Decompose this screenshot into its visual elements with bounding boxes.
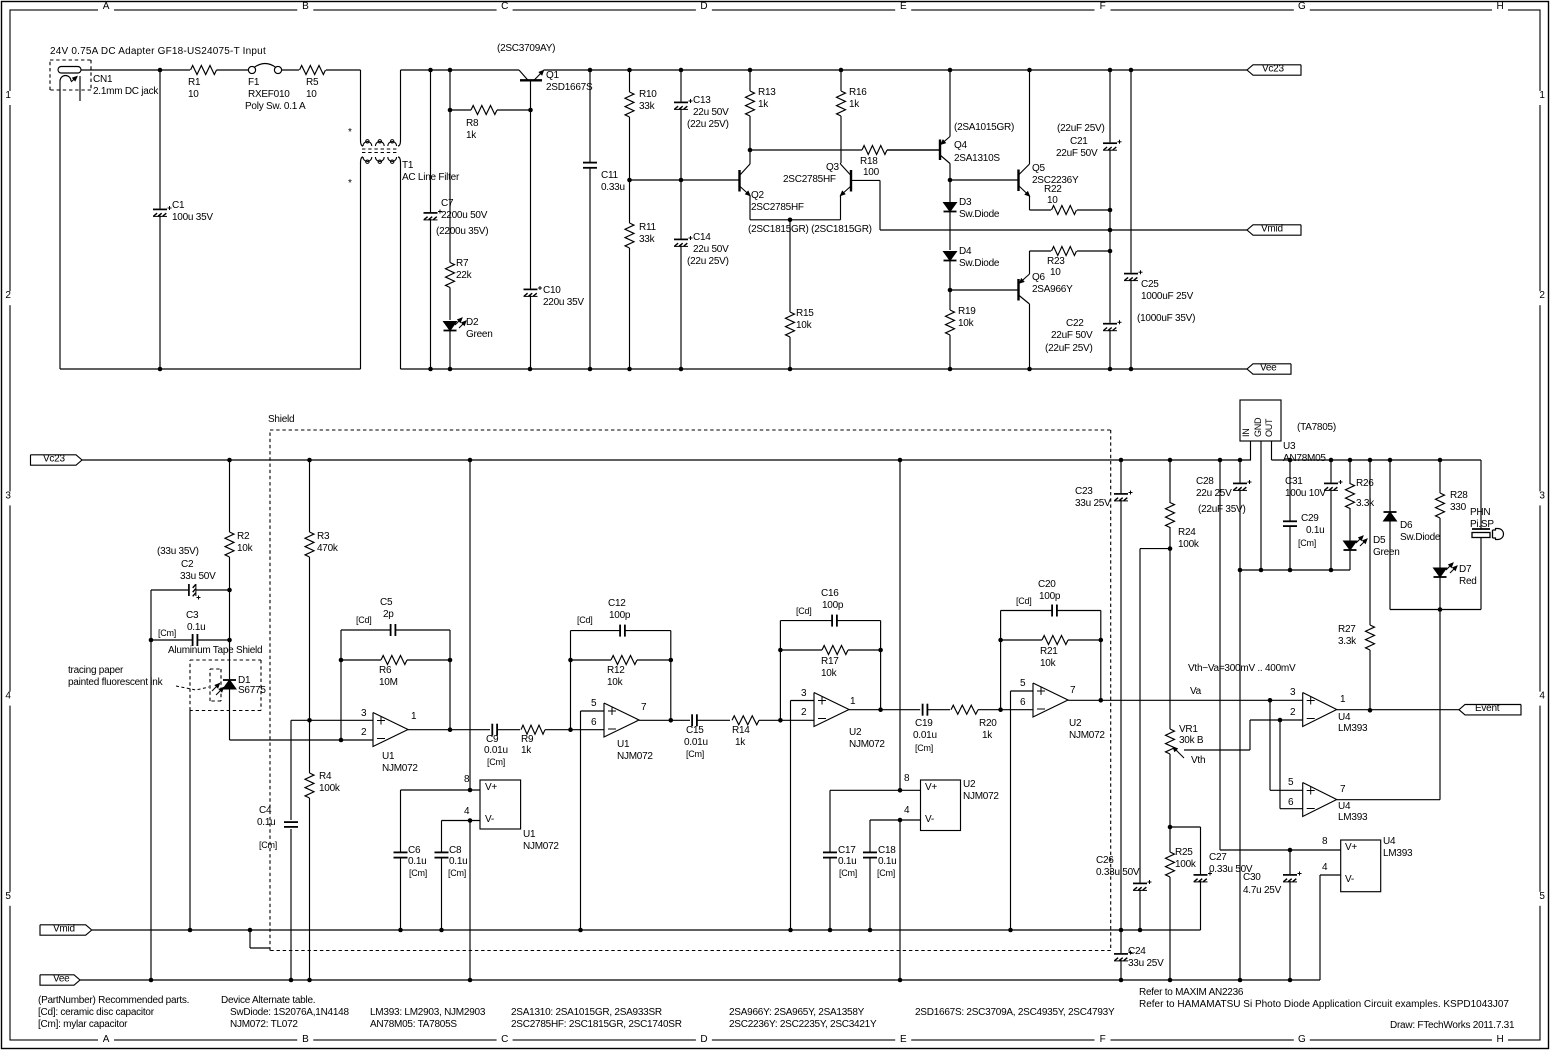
capacitor C28 22u 25V bbox=[1196, 460, 1252, 570]
svg-text:1k: 1k bbox=[735, 737, 746, 748]
transistor Q1 2SD1667S bbox=[497, 43, 593, 93]
shield dashed box bbox=[268, 414, 1111, 951]
LED D7 Red bbox=[1434, 563, 1477, 610]
junction Vee x=1170 bbox=[1168, 978, 1173, 983]
svg-text:[Cm]: [Cm] bbox=[409, 868, 427, 878]
feedback left U2b bbox=[998, 611, 1052, 710]
svg-text:220u 35V: 220u 35V bbox=[543, 297, 584, 308]
resistor R13 1k bbox=[746, 70, 777, 150]
svg-text:3.3k: 3.3k bbox=[1338, 636, 1357, 647]
svg-text:470k: 470k bbox=[317, 543, 339, 554]
junction Vmid x=1121 bbox=[1119, 928, 1124, 933]
junction on Vc rail x=750 bbox=[748, 68, 753, 73]
junction Vee x=1240 bbox=[1238, 978, 1243, 983]
resistor R11 33k bbox=[625, 180, 657, 369]
wire R25 to C27 bbox=[1170, 827, 1201, 874]
wire U2a out bbox=[849, 707, 920, 712]
svg-text:R21: R21 bbox=[1040, 646, 1058, 657]
svg-text:C: C bbox=[501, 1, 508, 12]
wire R2 to D1 bbox=[229, 590, 231, 679]
svg-text:C1: C1 bbox=[172, 200, 185, 211]
svg-text:5: 5 bbox=[1539, 891, 1545, 902]
wire tape shield to Vmid bbox=[189, 711, 191, 931]
junction 5V rail x=1331 bbox=[1329, 458, 1334, 463]
transistor Q6 2SA966Y bbox=[1019, 251, 1074, 369]
svg-text:Event: Event bbox=[1475, 703, 1500, 714]
svg-text:C8: C8 bbox=[449, 845, 462, 856]
svg-text:D: D bbox=[700, 1, 707, 12]
svg-text:painted fluorescent ink: painted fluorescent ink bbox=[68, 677, 164, 688]
wire D6 D7 PHN node bbox=[1390, 607, 1481, 612]
svg-text:10: 10 bbox=[188, 89, 199, 100]
svg-text:(33u 35V): (33u 35V) bbox=[157, 546, 199, 557]
svg-text:0.1u: 0.1u bbox=[257, 817, 275, 828]
svg-text:R10: R10 bbox=[639, 89, 657, 100]
svg-text:[Cd]: [Cd] bbox=[356, 615, 372, 625]
wire U4a out to Event bbox=[1337, 709, 1459, 711]
resistor R3 470k bbox=[305, 460, 339, 720]
bottom notes bbox=[38, 987, 1515, 1031]
svg-text:R16: R16 bbox=[849, 87, 867, 98]
svg-text:A: A bbox=[103, 1034, 110, 1045]
svg-text:1k: 1k bbox=[758, 99, 769, 110]
svg-text:0.1u: 0.1u bbox=[838, 856, 856, 867]
svg-text:(1000uF 35V): (1000uF 35V) bbox=[1137, 313, 1195, 324]
svg-text:R4: R4 bbox=[319, 771, 332, 782]
svg-text:100p: 100p bbox=[609, 610, 631, 621]
svg-text:D6: D6 bbox=[1400, 520, 1413, 531]
svg-text:100p: 100p bbox=[822, 600, 844, 611]
wire Q2 base bbox=[739, 179, 741, 181]
svg-text:C5: C5 bbox=[380, 597, 393, 608]
capacitor C10 220u 35V bbox=[524, 285, 585, 369]
svg-text:2SA1310: 2SA1015GR, 2SA933SR: 2SA1310: 2SA1015GR, 2SA933SR bbox=[511, 1007, 662, 1018]
junction Vmid x=441.5 bbox=[439, 928, 444, 933]
wire Vee rail bbox=[80, 979, 1320, 981]
svg-text:7: 7 bbox=[1070, 685, 1076, 696]
svg-text:D2: D2 bbox=[466, 317, 479, 328]
svg-text:(22uF 35V): (22uF 35V) bbox=[1198, 504, 1246, 515]
svg-text:U1: U1 bbox=[382, 751, 395, 762]
capacitor C4 0.1u bbox=[257, 720, 298, 980]
wire U1a out bbox=[408, 727, 490, 732]
svg-text:S6775: S6775 bbox=[238, 685, 266, 696]
svg-text:C9: C9 bbox=[486, 734, 499, 745]
svg-text:2p: 2p bbox=[383, 609, 394, 620]
svg-text:D: D bbox=[700, 1034, 707, 1045]
svg-text:C31: C31 bbox=[1285, 476, 1303, 487]
svg-text:U3: U3 bbox=[1283, 441, 1296, 452]
flag Vee bottom bbox=[40, 973, 80, 985]
junction Vmid x=1010.5 bbox=[1008, 928, 1013, 933]
svg-text:C3: C3 bbox=[186, 610, 199, 621]
diode D4 Sw.Diode bbox=[944, 246, 1000, 290]
svg-text:R2: R2 bbox=[237, 531, 250, 542]
svg-text:2SD1667S: 2SD1667S bbox=[546, 82, 593, 93]
svg-text:5: 5 bbox=[1020, 678, 1026, 689]
svg-text:Aluminum Tape Shield: Aluminum Tape Shield bbox=[168, 645, 262, 656]
svg-text:33u 50V: 33u 50V bbox=[180, 571, 216, 582]
wire U2 Vplus feed bbox=[830, 460, 921, 793]
alt text q2 q3 bbox=[748, 224, 872, 235]
junction on Vee rail x=790 bbox=[788, 367, 793, 372]
wire Va branch bbox=[1270, 700, 1303, 790]
svg-text:10k: 10k bbox=[821, 668, 838, 679]
svg-text:0.1u: 0.1u bbox=[187, 622, 205, 633]
junction on Vee rail x=1131 bbox=[1129, 367, 1134, 372]
svg-text:0.1u: 0.1u bbox=[408, 856, 426, 867]
svg-text:33k: 33k bbox=[639, 101, 656, 112]
wire U2 Vminus bbox=[870, 818, 921, 980]
wire 5V rail bbox=[1272, 459, 1482, 461]
node R13 bottom bbox=[748, 148, 753, 153]
diode D3 Sw.Diode bbox=[944, 180, 1000, 250]
svg-text:5: 5 bbox=[1288, 777, 1294, 788]
svg-text:AN78M05: TA7805S: AN78M05: TA7805S bbox=[370, 1019, 457, 1030]
svg-text:100p: 100p bbox=[1039, 591, 1061, 602]
svg-text:GND: GND bbox=[1253, 417, 1263, 437]
wire C28 line down bbox=[1239, 570, 1241, 980]
junction Vee x=470 bbox=[468, 978, 473, 983]
svg-text:G: G bbox=[1298, 1034, 1306, 1045]
svg-text:R12: R12 bbox=[607, 665, 625, 676]
svg-text:3: 3 bbox=[1290, 687, 1296, 698]
wire U1 Vminus bbox=[442, 818, 481, 980]
svg-text:R22: R22 bbox=[1044, 184, 1062, 195]
wire bottom rail right of T1 bbox=[401, 368, 1248, 370]
transistor Q2 2SC2785HF bbox=[740, 150, 804, 220]
wire node to U4b out bbox=[1439, 610, 1441, 800]
svg-text:8: 8 bbox=[464, 774, 470, 785]
wire y150 line bbox=[750, 149, 940, 151]
svg-text:100k: 100k bbox=[1175, 859, 1197, 870]
svg-text:100k: 100k bbox=[319, 783, 341, 794]
flag Vc23 top bbox=[1247, 63, 1301, 75]
svg-text:[Cd]: [Cd] bbox=[1016, 596, 1032, 606]
svg-text:NJM072: TL072: NJM072: TL072 bbox=[230, 1019, 298, 1030]
flag Vc23 mid bbox=[31, 453, 83, 465]
resistor R23 10 bbox=[1030, 247, 1111, 279]
svg-text:NJM072: NJM072 bbox=[849, 739, 885, 750]
wire top rail after Q1 bbox=[544, 69, 1248, 71]
svg-text:Q1: Q1 bbox=[546, 70, 560, 81]
svg-text:Refer to MAXIM AN2236: Refer to MAXIM AN2236 bbox=[1139, 987, 1244, 998]
wire R24 to C26 line bbox=[1140, 549, 1170, 930]
svg-text:2: 2 bbox=[1290, 707, 1296, 718]
wire F1-R5 bbox=[282, 69, 299, 71]
svg-text:(2200u 35V): (2200u 35V) bbox=[436, 226, 488, 237]
junction on Vee rail x=530 bbox=[528, 367, 533, 372]
resistor R6 10M bbox=[341, 656, 450, 689]
svg-text:R5: R5 bbox=[306, 77, 319, 88]
svg-text:10k: 10k bbox=[958, 318, 975, 329]
node jack-C1 bbox=[158, 68, 163, 73]
svg-text:10k: 10k bbox=[1040, 658, 1057, 669]
svg-text:Q4: Q4 bbox=[954, 140, 968, 151]
feedback left U1a bbox=[339, 630, 391, 740]
svg-text:Green: Green bbox=[1373, 547, 1400, 558]
capacitor C14 22u 50V bbox=[674, 180, 729, 369]
svg-text:2SA966Y: 2SA966Y bbox=[1032, 284, 1073, 295]
regulator U3 AN78M05 bbox=[1240, 400, 1336, 570]
svg-text:[Cm]: [Cm] bbox=[839, 868, 857, 878]
wire stage4 plus bias bbox=[1011, 691, 1034, 930]
svg-text:3: 3 bbox=[361, 708, 367, 719]
capacitor C12 100p bbox=[577, 598, 671, 637]
svg-text:30k B: 30k B bbox=[1179, 735, 1204, 746]
capacitor C7 2200u 50V bbox=[424, 70, 489, 369]
svg-text:RXEF010: RXEF010 bbox=[248, 89, 290, 100]
svg-text:4: 4 bbox=[1539, 691, 1545, 702]
svg-text:10k: 10k bbox=[237, 543, 254, 554]
svg-text:OUT: OUT bbox=[1264, 418, 1274, 437]
svg-text:SwDiode: 1S2076A,1N4148: SwDiode: 1S2076A,1N4148 bbox=[230, 1007, 349, 1018]
capacitor C2 33u 50V bbox=[151, 546, 230, 600]
junction on Vee rail x=681 bbox=[679, 367, 684, 372]
svg-text:Vee: Vee bbox=[1260, 362, 1277, 373]
wire Vmid line top bbox=[880, 229, 1247, 231]
svg-text:R15: R15 bbox=[796, 308, 814, 319]
svg-text:(22u 25V): (22u 25V) bbox=[687, 256, 729, 267]
svg-text:U4: U4 bbox=[1338, 712, 1351, 723]
svg-text:Sw.Diode: Sw.Diode bbox=[959, 209, 1000, 220]
node R8 left bbox=[448, 108, 453, 113]
resistor R26 3.3k bbox=[1346, 460, 1376, 541]
svg-text:22u 25V: 22u 25V bbox=[1196, 488, 1232, 499]
svg-text:C16: C16 bbox=[821, 588, 839, 599]
potentiometer VR1 30k B bbox=[1166, 549, 1251, 827]
svg-text:2SC2785HF: 2SC2785HF bbox=[751, 202, 804, 213]
svg-text:2SD1667S: 2SC3709A, 2SC4935Y,: 2SD1667S: 2SC3709A, 2SC4935Y, 2SC4793Y bbox=[915, 1007, 1115, 1018]
svg-text:R9: R9 bbox=[521, 734, 534, 745]
svg-text:[Cm]: [Cm] bbox=[487, 757, 505, 767]
flag Vmid top bbox=[1247, 223, 1301, 235]
svg-text:R13: R13 bbox=[758, 87, 776, 98]
svg-text:5: 5 bbox=[5, 891, 11, 902]
svg-text:0.1u: 0.1u bbox=[878, 856, 896, 867]
svg-text:V-: V- bbox=[485, 814, 494, 825]
capacitor C1 100u 35V bbox=[153, 70, 213, 369]
wire bottom-left rail bbox=[60, 100, 361, 371]
svg-text:(2SC3709AY): (2SC3709AY) bbox=[497, 43, 555, 54]
svg-text:1: 1 bbox=[5, 90, 11, 101]
svg-text:C26: C26 bbox=[1096, 855, 1114, 866]
wire U1 Vplus feed bbox=[401, 460, 481, 792]
node VR1 bottom bbox=[1168, 825, 1173, 830]
svg-text:H: H bbox=[1497, 1034, 1504, 1045]
svg-text:C13: C13 bbox=[693, 95, 711, 106]
junction Vmid x=830 bbox=[828, 928, 833, 933]
svg-text:3: 3 bbox=[5, 490, 11, 501]
junction 5V rail x=1390 bbox=[1388, 458, 1393, 463]
svg-text:C21: C21 bbox=[1070, 136, 1088, 147]
wire R1-F1 bbox=[217, 69, 249, 71]
svg-text:(TA7805): (TA7805) bbox=[1297, 422, 1336, 433]
svg-text:D4: D4 bbox=[959, 246, 972, 257]
wire Vmid rail bbox=[92, 929, 1201, 931]
wire Vc23 mid rail bbox=[82, 459, 1251, 461]
node R23 out bbox=[1108, 249, 1113, 254]
svg-text:R1: R1 bbox=[188, 77, 201, 88]
svg-text:CN1: CN1 bbox=[93, 74, 113, 85]
flag Vee top bbox=[1247, 362, 1291, 374]
svg-text:F: F bbox=[1100, 1, 1106, 12]
svg-text:G: G bbox=[1298, 1, 1306, 12]
svg-text:C30: C30 bbox=[1243, 872, 1261, 883]
junction Vee x=151 bbox=[149, 978, 154, 983]
junction on Vee rail x=1110 bbox=[1108, 367, 1113, 372]
connector CN1 2.1mm DC jack bbox=[50, 60, 159, 101]
svg-text:F1: F1 bbox=[248, 77, 260, 88]
capacitor C9 0.01u bbox=[484, 724, 520, 767]
svg-text:5: 5 bbox=[591, 698, 597, 709]
resistor R12 10k bbox=[571, 656, 671, 689]
svg-text:(22uF 25V): (22uF 25V) bbox=[1057, 123, 1105, 134]
junction Vc23 mid x=229.5 bbox=[227, 458, 232, 463]
node C3 left bbox=[149, 638, 154, 643]
svg-text:[Cd]: ceramic disc capacitor: [Cd]: ceramic disc capacitor bbox=[38, 1007, 155, 1018]
svg-text:R20: R20 bbox=[979, 718, 997, 729]
svg-text:Vth: Vth bbox=[1191, 755, 1205, 766]
svg-text:22uF 50V: 22uF 50V bbox=[1056, 148, 1098, 159]
svg-text:C29: C29 bbox=[1301, 513, 1319, 524]
svg-text:2: 2 bbox=[361, 727, 367, 738]
svg-text:R26: R26 bbox=[1356, 478, 1374, 489]
wire pin3 line bbox=[291, 719, 373, 721]
capacitor C8 0.1u bbox=[435, 821, 468, 931]
label Va bbox=[1190, 686, 1202, 697]
node R22 out bbox=[1108, 208, 1113, 213]
svg-text:Q3: Q3 bbox=[826, 162, 840, 173]
junction Vc23 mid x=1121 bbox=[1119, 458, 1124, 463]
junction Vc23 mid x=900 bbox=[898, 458, 903, 463]
svg-text:NJM072: NJM072 bbox=[617, 751, 653, 762]
svg-text:C22: C22 bbox=[1066, 318, 1084, 329]
wire stage3 plus bias bbox=[791, 701, 815, 931]
svg-text:4.7u 25V: 4.7u 25V bbox=[1243, 885, 1282, 896]
svg-text:C6: C6 bbox=[408, 845, 421, 856]
svg-text:Sw.Diode: Sw.Diode bbox=[959, 258, 1000, 269]
transistor Q4 2SA1310S bbox=[887, 70, 1014, 180]
junction 5V rail x=1370 bbox=[1368, 458, 1373, 463]
junction Vc23 mid x=1220 bbox=[1218, 458, 1223, 463]
svg-text:[Cm]: [Cm] bbox=[158, 628, 176, 638]
junction Vmid x=580.5 bbox=[578, 928, 583, 933]
junction Vee x=309.5 bbox=[307, 978, 312, 983]
wire Q1 base down bbox=[530, 80, 532, 288]
capacitor C6 0.1u bbox=[394, 790, 428, 930]
svg-text:Q5: Q5 bbox=[1032, 163, 1046, 174]
wire C2C3 left down to Vee bbox=[150, 590, 152, 980]
svg-text:NJM072: NJM072 bbox=[1069, 730, 1105, 741]
capacitor C11 0.33u bbox=[583, 70, 625, 369]
svg-text:R11: R11 bbox=[639, 222, 657, 233]
svg-text:33k: 33k bbox=[639, 234, 656, 245]
capacitor C16 100p bbox=[796, 588, 881, 627]
resistor R2 10k bbox=[225, 460, 254, 590]
svg-text:6: 6 bbox=[1020, 697, 1026, 708]
svg-text:0.1u: 0.1u bbox=[449, 856, 467, 867]
op-amp U2 stage4 NJM072 bbox=[1020, 678, 1105, 741]
svg-text:LM393: LM393 bbox=[1338, 812, 1368, 823]
svg-text:2SA1310S: 2SA1310S bbox=[954, 153, 1000, 164]
junction on Vc rail x=681 bbox=[679, 68, 684, 73]
svg-text:1k: 1k bbox=[521, 745, 532, 756]
transformer T1 AC line filter bbox=[348, 127, 460, 189]
node R3 R4 pin3 bbox=[307, 718, 312, 723]
junction Vee x=291 bbox=[289, 978, 294, 983]
resistor R19 10k bbox=[946, 290, 977, 369]
svg-text:2: 2 bbox=[801, 707, 807, 718]
svg-text:0.33u 50V: 0.33u 50V bbox=[1096, 867, 1140, 878]
svg-text:2SC2785HF: 2SC2785HF bbox=[783, 174, 836, 185]
svg-text:[Cm]: [Cm] bbox=[877, 868, 895, 878]
svg-text:3: 3 bbox=[801, 688, 807, 699]
svg-text:10: 10 bbox=[1047, 195, 1058, 206]
junction Vc23 mid x=470 bbox=[468, 458, 473, 463]
junction Vmid x=1140 bbox=[1138, 928, 1143, 933]
svg-text:(2SA1015GR): (2SA1015GR) bbox=[954, 122, 1014, 133]
resistor R16 1k bbox=[837, 70, 868, 163]
svg-text:(22u 25V): (22u 25V) bbox=[687, 119, 729, 130]
svg-text:10M: 10M bbox=[379, 677, 398, 688]
svg-text:2: 2 bbox=[5, 290, 11, 301]
wire stage2 plus bias bbox=[581, 711, 605, 930]
svg-text:A: A bbox=[103, 1, 110, 12]
wire U4b out bbox=[1337, 799, 1440, 801]
resistor R14 1k bbox=[732, 716, 814, 748]
svg-text:C14: C14 bbox=[693, 232, 711, 243]
svg-text:Poly Sw. 0.1 A: Poly Sw. 0.1 A bbox=[245, 101, 306, 112]
junction on Vee rail x=430.5 bbox=[428, 367, 433, 372]
svg-text:10: 10 bbox=[1050, 267, 1061, 278]
svg-text:R3: R3 bbox=[317, 531, 330, 542]
node R24 bottom bbox=[1168, 546, 1173, 551]
svg-text:0.01u: 0.01u bbox=[684, 737, 708, 748]
svg-text:R23: R23 bbox=[1047, 256, 1065, 267]
resistor R10 33k bbox=[625, 70, 657, 180]
resistor R28 330 bbox=[1436, 460, 1469, 568]
power pins U2 V+ V- bbox=[904, 773, 999, 831]
junction 5V rail x=1350 bbox=[1348, 458, 1353, 463]
wire U2b out Va bbox=[1068, 698, 1303, 703]
svg-text:R28: R28 bbox=[1450, 490, 1468, 501]
tracing paper dashed box bbox=[210, 669, 221, 701]
svg-text:Green: Green bbox=[466, 329, 493, 340]
node R8 right bbox=[528, 108, 533, 113]
svg-text:D3: D3 bbox=[959, 197, 972, 208]
junction Vmid x=400.5 bbox=[398, 928, 403, 933]
svg-text:NJM072: NJM072 bbox=[963, 791, 999, 802]
svg-text:C17: C17 bbox=[838, 845, 856, 856]
svg-text:U1: U1 bbox=[523, 829, 536, 840]
svg-text:8: 8 bbox=[1322, 836, 1328, 847]
svg-text:2200u 50V: 2200u 50V bbox=[441, 210, 488, 221]
resistor R15 10k bbox=[786, 220, 815, 369]
wire jack to R1 node bbox=[81, 69, 190, 71]
junction on Vee rail x=629.5 bbox=[627, 367, 632, 372]
svg-text:C18: C18 bbox=[878, 845, 896, 856]
diode D6 Sw.Diode bbox=[1384, 460, 1441, 610]
svg-text:U2: U2 bbox=[1069, 718, 1082, 729]
svg-text:*: * bbox=[348, 127, 352, 138]
node Q4 collector bbox=[948, 178, 953, 183]
power pins U1 V+ V- bbox=[464, 774, 559, 852]
capacitor C29 0.1u bbox=[1283, 460, 1324, 570]
svg-text:F: F bbox=[1100, 1034, 1106, 1045]
svg-text:Sw.Diode: Sw.Diode bbox=[1400, 532, 1441, 543]
junction on Vee rail x=1029.5 bbox=[1027, 367, 1032, 372]
